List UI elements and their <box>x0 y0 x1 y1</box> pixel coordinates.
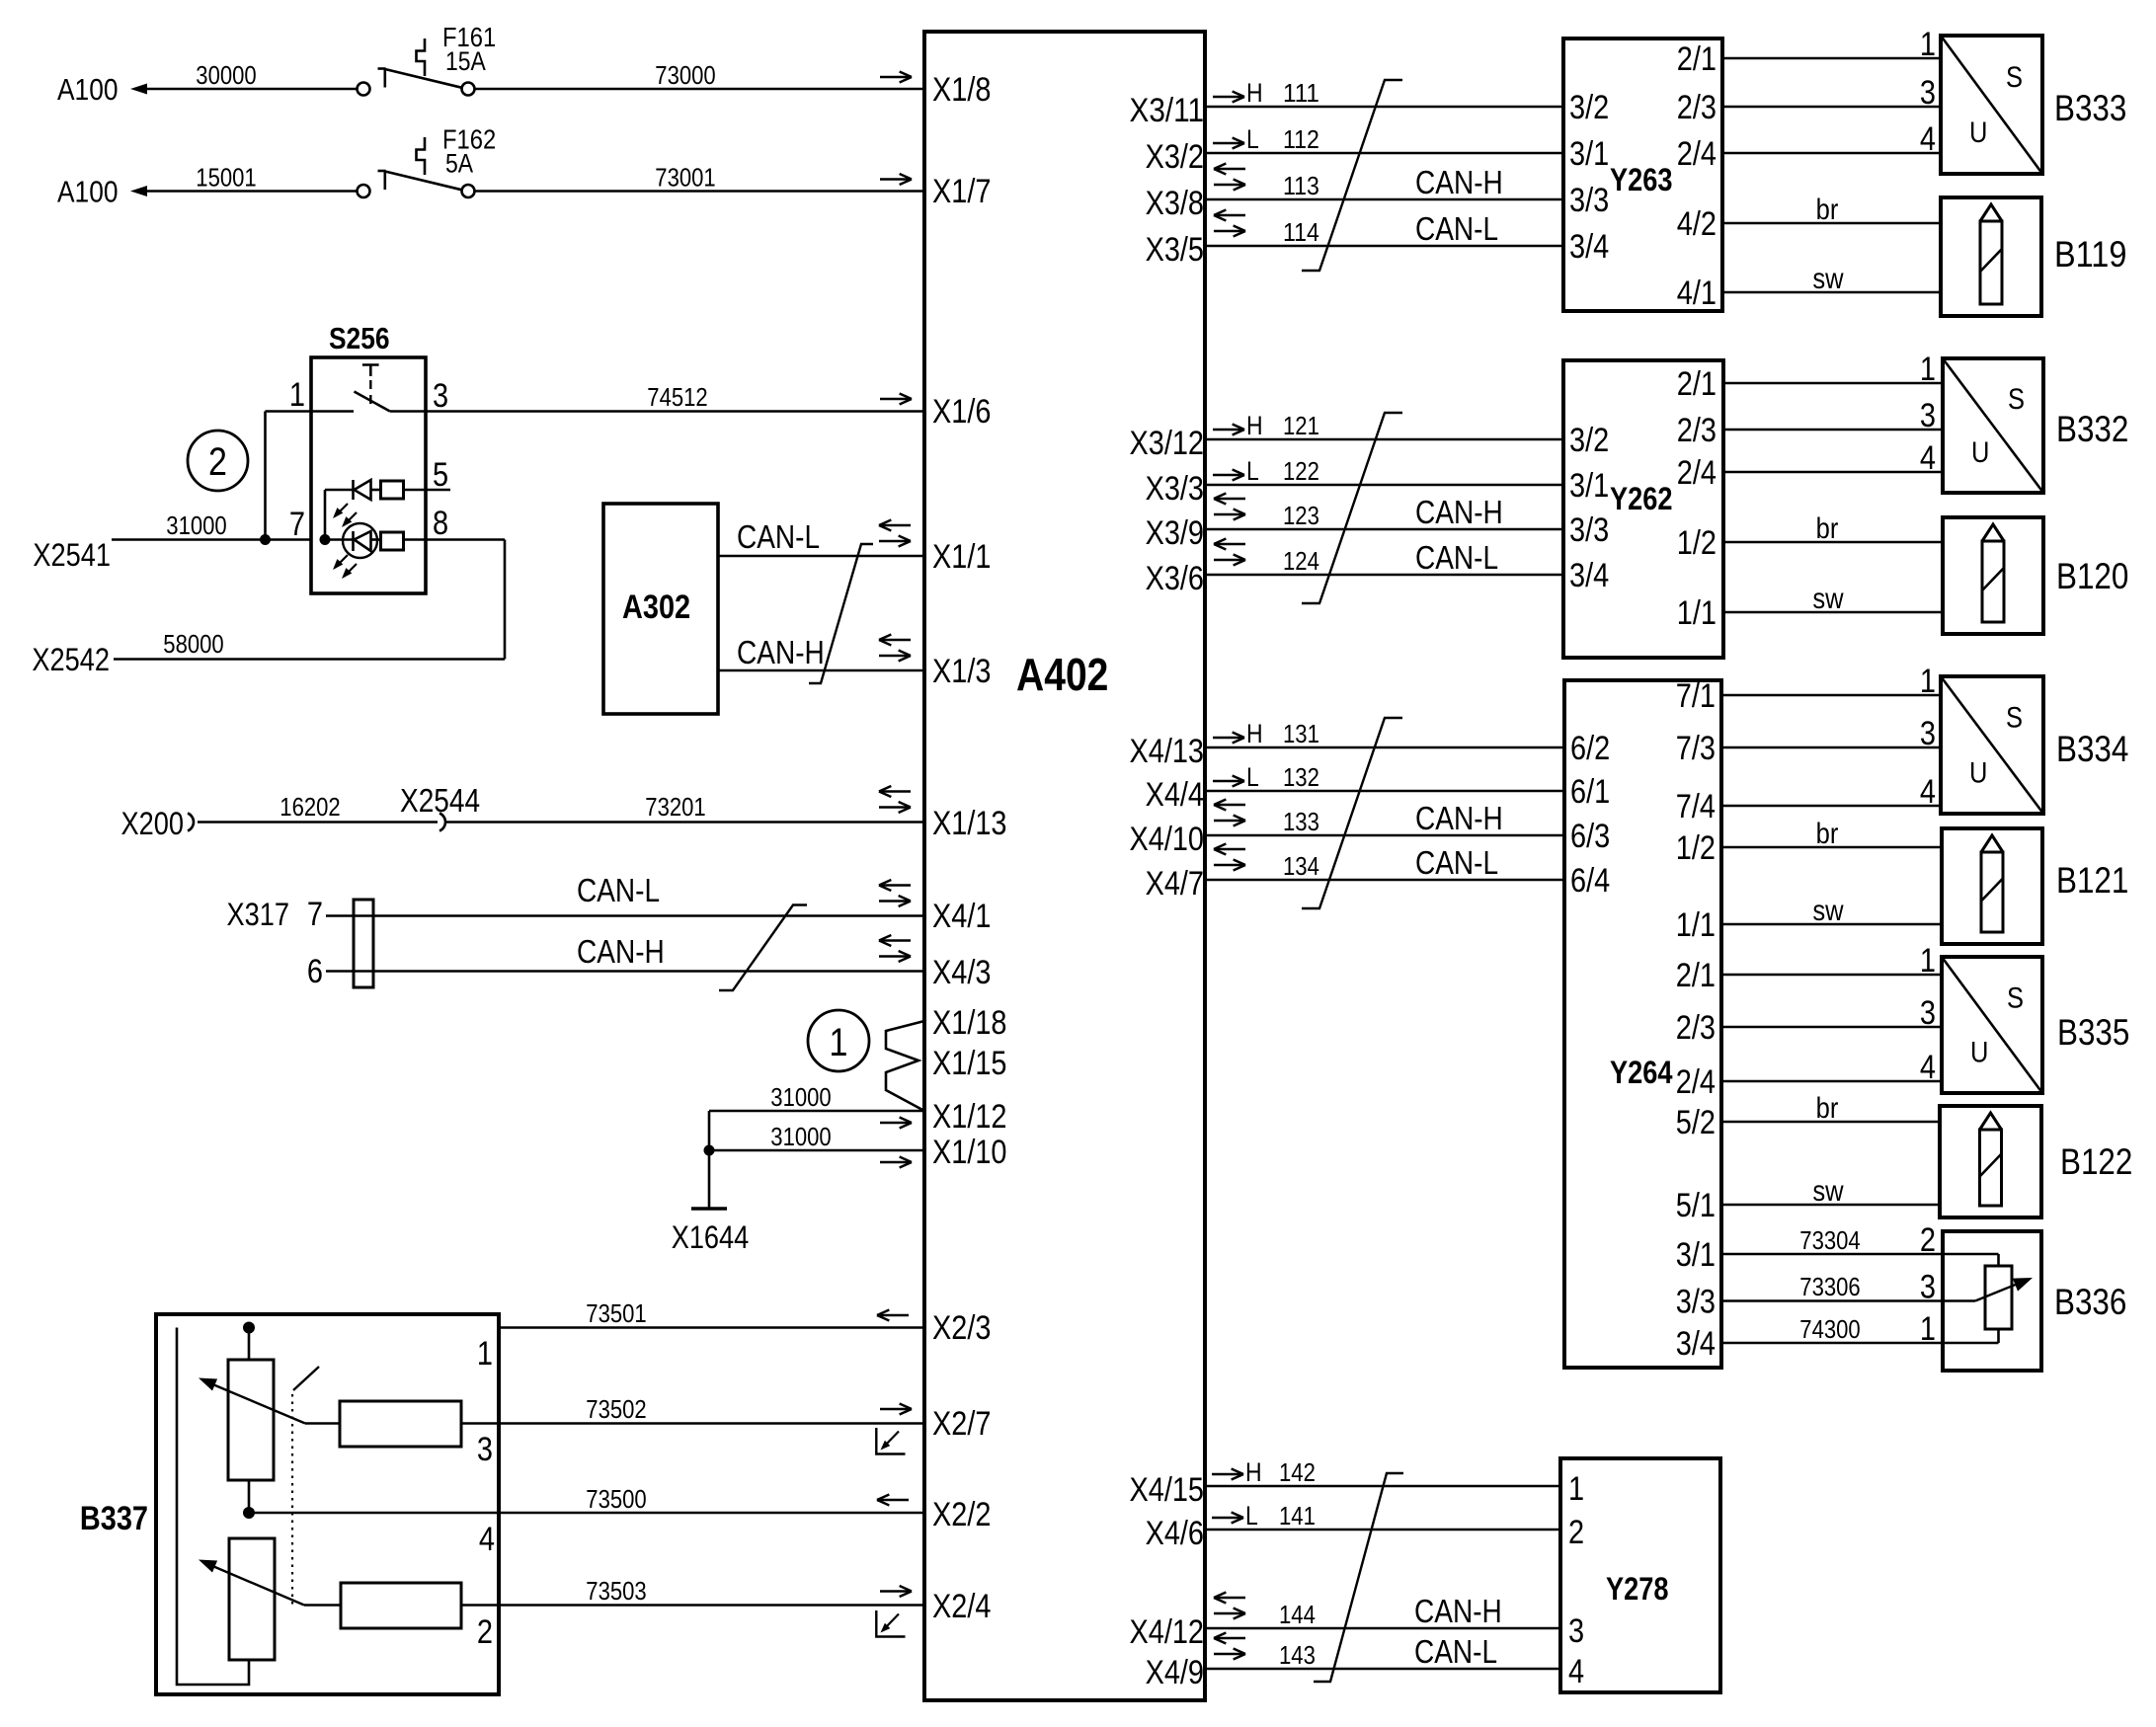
svg-text:X2/2: X2/2 <box>932 1496 991 1533</box>
svg-text:X2542: X2542 <box>32 642 110 677</box>
svg-text:7: 7 <box>307 896 323 933</box>
svg-text:142: 142 <box>1279 1457 1316 1487</box>
svg-text:123: 123 <box>1283 501 1319 530</box>
svg-text:X1/10: X1/10 <box>932 1134 1007 1171</box>
svg-text:S: S <box>2007 981 2024 1014</box>
svg-text:6/4: 6/4 <box>1570 862 1610 900</box>
svg-text:sw: sw <box>1812 1175 1843 1208</box>
svg-text:2/4: 2/4 <box>1676 1063 1716 1101</box>
svg-text:3/4: 3/4 <box>1569 228 1609 266</box>
svg-text:6/1: 6/1 <box>1570 773 1610 811</box>
svg-text:2/3: 2/3 <box>1677 412 1717 449</box>
svg-text:X200: X200 <box>121 806 185 841</box>
svg-text:2: 2 <box>477 1613 493 1651</box>
svg-text:2/1: 2/1 <box>1677 40 1717 78</box>
svg-text:3/1: 3/1 <box>1676 1236 1716 1274</box>
svg-text:CAN-H: CAN-H <box>1415 494 1503 530</box>
svg-text:2/1: 2/1 <box>1676 957 1716 994</box>
svg-text:1: 1 <box>1920 663 1936 700</box>
svg-text:3/2: 3/2 <box>1569 422 1609 459</box>
svg-text:X4/13: X4/13 <box>1130 733 1205 770</box>
svg-text:X4/6: X4/6 <box>1146 1515 1204 1552</box>
svg-text:73503: 73503 <box>586 1576 646 1606</box>
svg-text:X2544: X2544 <box>400 782 480 819</box>
svg-text:124: 124 <box>1283 546 1319 576</box>
svg-text:CAN-H: CAN-H <box>577 933 665 970</box>
svg-text:X2541: X2541 <box>33 537 111 573</box>
svg-text:CAN-H: CAN-H <box>1415 164 1503 200</box>
svg-text:Y278: Y278 <box>1606 1571 1669 1607</box>
svg-text:X1/6: X1/6 <box>932 393 991 431</box>
svg-text:S: S <box>2008 383 2025 416</box>
svg-text:74300: 74300 <box>1799 1314 1860 1344</box>
svg-text:134: 134 <box>1283 851 1319 881</box>
svg-text:S: S <box>2006 61 2023 94</box>
svg-text:4/1: 4/1 <box>1677 275 1717 312</box>
svg-text:sw: sw <box>1812 263 1843 295</box>
svg-text:6/3: 6/3 <box>1570 818 1610 855</box>
svg-text:U: U <box>1969 117 1987 149</box>
svg-text:133: 133 <box>1283 807 1319 836</box>
svg-text:S: S <box>2006 702 2023 735</box>
svg-text:X1/8: X1/8 <box>932 71 991 109</box>
svg-text:2/1: 2/1 <box>1677 365 1717 403</box>
svg-text:5/2: 5/2 <box>1676 1104 1716 1141</box>
svg-text:73500: 73500 <box>586 1484 646 1514</box>
svg-text:B335: B335 <box>2057 1012 2129 1053</box>
svg-text:br: br <box>1816 818 1839 850</box>
svg-text:X4/9: X4/9 <box>1146 1654 1204 1691</box>
svg-text:X4/1: X4/1 <box>932 898 991 935</box>
svg-text:1: 1 <box>1568 1470 1584 1508</box>
svg-text:58000: 58000 <box>163 629 223 659</box>
svg-text:B337: B337 <box>80 1500 148 1537</box>
svg-text:2/4: 2/4 <box>1677 454 1717 492</box>
svg-text:3/2: 3/2 <box>1569 89 1609 126</box>
svg-text:Y264: Y264 <box>1610 1055 1673 1090</box>
svg-text:X1/15: X1/15 <box>932 1045 1007 1082</box>
svg-text:X1/18: X1/18 <box>932 1004 1007 1042</box>
svg-text:3: 3 <box>1920 994 1936 1032</box>
svg-text:X4/7: X4/7 <box>1146 865 1204 903</box>
svg-text:3/4: 3/4 <box>1569 557 1609 594</box>
svg-text:1/2: 1/2 <box>1677 524 1717 562</box>
svg-text:X3/5: X3/5 <box>1146 231 1204 269</box>
svg-text:1: 1 <box>289 376 305 414</box>
svg-text:6: 6 <box>307 953 323 990</box>
svg-text:H: H <box>1245 1457 1262 1487</box>
svg-text:sw: sw <box>1812 583 1843 615</box>
svg-text:A100: A100 <box>57 72 119 107</box>
svg-text:B120: B120 <box>2056 556 2128 596</box>
svg-text:31000: 31000 <box>770 1122 831 1151</box>
svg-text:74512: 74512 <box>647 382 707 412</box>
svg-text:CAN-H: CAN-H <box>1415 800 1503 836</box>
svg-text:1: 1 <box>1920 942 1936 980</box>
svg-text:5: 5 <box>433 456 448 494</box>
svg-text:X1/13: X1/13 <box>932 805 1007 842</box>
svg-text:1: 1 <box>1920 351 1936 388</box>
svg-text:15001: 15001 <box>196 163 256 193</box>
svg-text:4: 4 <box>1920 439 1936 477</box>
svg-text:B334: B334 <box>2056 729 2128 769</box>
svg-text:114: 114 <box>1283 217 1319 247</box>
svg-text:X3/8: X3/8 <box>1146 185 1204 222</box>
svg-text:2/3: 2/3 <box>1676 1009 1716 1047</box>
svg-text:X3/3: X3/3 <box>1146 470 1204 508</box>
svg-text:X1/12: X1/12 <box>932 1098 1007 1136</box>
svg-text:X4/4: X4/4 <box>1146 776 1204 814</box>
svg-text:A302: A302 <box>622 589 690 626</box>
svg-text:143: 143 <box>1279 1640 1316 1670</box>
svg-text:131: 131 <box>1283 719 1319 748</box>
svg-text:X2/3: X2/3 <box>932 1309 991 1347</box>
svg-text:X1644: X1644 <box>672 1219 750 1255</box>
svg-text:113: 113 <box>1283 171 1319 200</box>
svg-text:br: br <box>1816 512 1839 545</box>
svg-text:X4/10: X4/10 <box>1130 821 1205 858</box>
svg-text:1: 1 <box>1920 26 1936 63</box>
svg-text:1/1: 1/1 <box>1676 906 1716 944</box>
svg-text:B336: B336 <box>2054 1282 2126 1322</box>
svg-text:15A: 15A <box>445 46 486 76</box>
svg-text:7/4: 7/4 <box>1676 788 1716 825</box>
svg-text:br: br <box>1816 194 1839 226</box>
svg-text:CAN-L: CAN-L <box>1415 539 1498 576</box>
svg-text:144: 144 <box>1279 1600 1316 1629</box>
svg-text:CAN-L: CAN-L <box>737 518 820 555</box>
svg-text:16202: 16202 <box>279 792 340 822</box>
svg-text:X4/12: X4/12 <box>1130 1613 1205 1651</box>
svg-text:CAN-L: CAN-L <box>1414 1633 1497 1670</box>
svg-text:4: 4 <box>1920 1049 1936 1086</box>
svg-text:CAN-L: CAN-L <box>1415 844 1498 881</box>
svg-text:4: 4 <box>1920 120 1936 158</box>
svg-text:1/1: 1/1 <box>1677 594 1717 632</box>
svg-text:73001: 73001 <box>655 163 715 193</box>
svg-text:X317: X317 <box>227 897 290 932</box>
svg-text:3/3: 3/3 <box>1569 182 1609 219</box>
svg-text:L: L <box>1245 1501 1258 1531</box>
svg-text:1/2: 1/2 <box>1676 829 1716 867</box>
svg-text:X4/15: X4/15 <box>1130 1471 1205 1509</box>
svg-text:1: 1 <box>830 1021 848 1064</box>
svg-text:H: H <box>1246 411 1263 440</box>
svg-text:73304: 73304 <box>1799 1225 1860 1255</box>
svg-text:B119: B119 <box>2054 234 2126 275</box>
svg-text:br: br <box>1816 1092 1839 1125</box>
svg-text:X1/7: X1/7 <box>932 173 991 210</box>
svg-text:7/3: 7/3 <box>1676 730 1716 767</box>
svg-text:112: 112 <box>1283 124 1319 154</box>
svg-text:3: 3 <box>1920 1269 1936 1306</box>
svg-text:4: 4 <box>479 1521 495 1558</box>
svg-text:3: 3 <box>1920 397 1936 434</box>
svg-text:3: 3 <box>433 377 448 415</box>
svg-text:U: U <box>1969 756 1987 789</box>
svg-text:A402: A402 <box>1016 649 1108 700</box>
svg-text:1: 1 <box>1920 1310 1936 1348</box>
svg-text:3: 3 <box>1568 1612 1584 1650</box>
svg-text:CAN-L: CAN-L <box>577 872 660 908</box>
svg-text:X3/2: X3/2 <box>1146 138 1204 176</box>
svg-text:132: 132 <box>1283 762 1319 792</box>
svg-text:3: 3 <box>477 1431 493 1468</box>
svg-text:1: 1 <box>477 1335 493 1373</box>
svg-text:6/2: 6/2 <box>1570 730 1610 767</box>
svg-text:3/1: 3/1 <box>1569 135 1609 173</box>
svg-text:U: U <box>1970 1037 1988 1069</box>
svg-text:121: 121 <box>1283 411 1319 440</box>
svg-text:CAN-H: CAN-H <box>1414 1593 1502 1629</box>
svg-text:7/1: 7/1 <box>1676 677 1716 715</box>
svg-text:2: 2 <box>208 440 227 484</box>
svg-text:3: 3 <box>1920 715 1936 752</box>
svg-text:U: U <box>1971 436 1989 469</box>
svg-text:X3/12: X3/12 <box>1130 425 1205 462</box>
svg-text:X3/11: X3/11 <box>1130 92 1205 129</box>
svg-text:X4/3: X4/3 <box>932 954 991 991</box>
svg-text:X2/4: X2/4 <box>932 1588 991 1625</box>
svg-text:L: L <box>1246 456 1259 486</box>
svg-text:73306: 73306 <box>1799 1272 1860 1301</box>
svg-text:7: 7 <box>289 506 305 543</box>
svg-text:Y262: Y262 <box>1610 481 1673 516</box>
svg-text:4/2: 4/2 <box>1677 205 1717 243</box>
svg-text:B121: B121 <box>2056 860 2128 901</box>
svg-text:3/4: 3/4 <box>1676 1325 1716 1363</box>
svg-text:4: 4 <box>1568 1653 1584 1690</box>
svg-text:S256: S256 <box>329 321 390 355</box>
svg-text:B333: B333 <box>2054 88 2126 128</box>
svg-text:2: 2 <box>1568 1514 1584 1551</box>
svg-text:CAN-H: CAN-H <box>737 634 825 670</box>
svg-text:2: 2 <box>1920 1221 1936 1259</box>
svg-text:122: 122 <box>1283 456 1319 486</box>
svg-text:B122: B122 <box>2060 1141 2132 1182</box>
svg-text:3/3: 3/3 <box>1569 511 1609 549</box>
svg-text:X2/7: X2/7 <box>932 1405 991 1443</box>
svg-text:31000: 31000 <box>166 510 226 540</box>
svg-text:8: 8 <box>433 505 448 542</box>
svg-text:B332: B332 <box>2056 409 2128 449</box>
svg-text:H: H <box>1246 719 1263 748</box>
svg-text:X1/1: X1/1 <box>932 538 991 576</box>
svg-text:3/3: 3/3 <box>1676 1284 1716 1321</box>
svg-text:A100: A100 <box>57 175 119 209</box>
svg-text:73501: 73501 <box>586 1298 646 1328</box>
svg-text:X1/3: X1/3 <box>932 653 991 690</box>
svg-text:5A: 5A <box>445 149 473 179</box>
svg-text:CAN-L: CAN-L <box>1415 210 1498 247</box>
svg-text:L: L <box>1246 124 1259 154</box>
svg-text:X3/9: X3/9 <box>1146 514 1204 552</box>
svg-text:2/4: 2/4 <box>1677 135 1717 173</box>
svg-text:73000: 73000 <box>655 60 715 90</box>
svg-text:4: 4 <box>1920 773 1936 811</box>
svg-text:3: 3 <box>1920 74 1936 112</box>
svg-text:31000: 31000 <box>770 1082 831 1112</box>
svg-text:X3/6: X3/6 <box>1146 560 1204 597</box>
svg-text:Y263: Y263 <box>1610 162 1673 197</box>
svg-text:141: 141 <box>1279 1501 1316 1531</box>
svg-text:3/1: 3/1 <box>1569 467 1609 505</box>
svg-text:30000: 30000 <box>196 60 256 90</box>
svg-text:73502: 73502 <box>586 1394 646 1424</box>
svg-text:73201: 73201 <box>645 792 705 822</box>
svg-text:sw: sw <box>1812 895 1843 927</box>
svg-text:111: 111 <box>1283 78 1319 108</box>
svg-text:5/1: 5/1 <box>1676 1187 1716 1224</box>
svg-text:L: L <box>1246 762 1259 792</box>
svg-text:2/3: 2/3 <box>1677 89 1717 126</box>
svg-text:H: H <box>1246 78 1263 108</box>
